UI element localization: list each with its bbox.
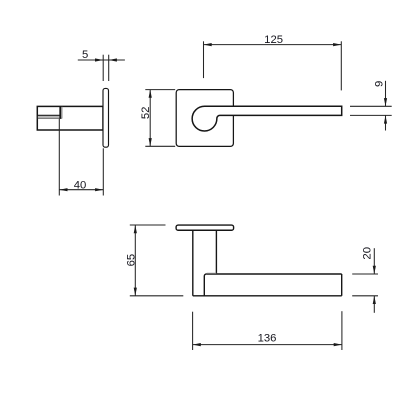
svg-text:5: 5 <box>82 49 88 61</box>
svg-text:65: 65 <box>126 254 138 267</box>
svg-text:40: 40 <box>74 179 87 191</box>
svg-text:125: 125 <box>264 34 283 46</box>
svg-text:52: 52 <box>140 107 152 120</box>
svg-text:9: 9 <box>373 81 385 87</box>
svg-text:136: 136 <box>258 333 277 345</box>
svg-text:20: 20 <box>362 247 374 260</box>
